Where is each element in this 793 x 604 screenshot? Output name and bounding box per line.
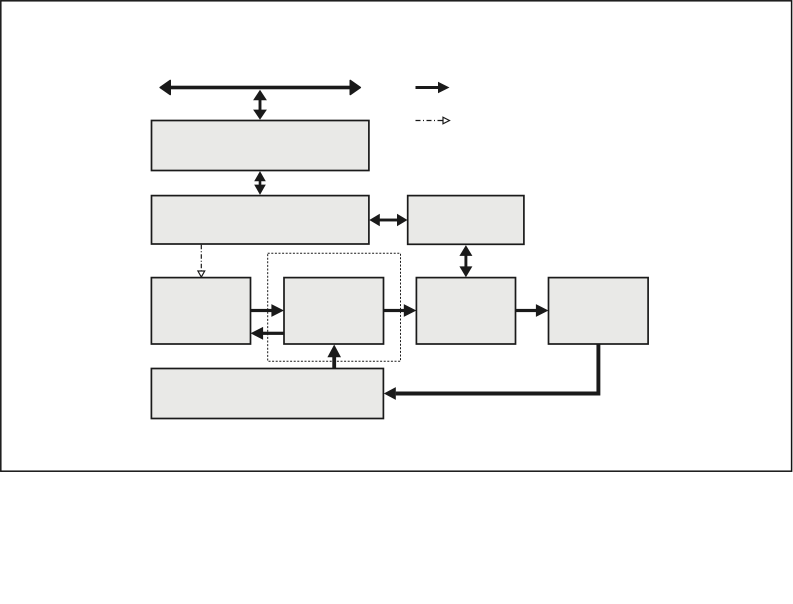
legend dash-dot arrow (416, 117, 450, 124)
arrow box9 up to box6 (327, 345, 341, 370)
vertical double arrow bus-box1 (253, 90, 267, 120)
box 1 (152, 121, 369, 171)
arrow box5 to box6 (251, 304, 285, 317)
box 9 (151, 369, 383, 419)
box 5 (151, 278, 250, 344)
bus double arrow (160, 81, 360, 95)
arrow box7 to box8 (516, 304, 549, 317)
box 8 (549, 278, 649, 344)
box 3 (408, 196, 524, 245)
box 7 (416, 278, 515, 344)
arrow box6 to box7 (384, 304, 417, 317)
box 2 (152, 196, 369, 244)
arrow box6 to box5 (251, 327, 285, 340)
box 6 (284, 278, 384, 344)
legend solid arrow (416, 82, 450, 93)
dotted rectangle (268, 253, 401, 361)
outer frame (1, 1, 792, 471)
horizontal double arrow box2-box3 (369, 214, 407, 226)
dash-dot arrow box2 to box5 (198, 245, 205, 277)
vertical double arrow box3-box7 (459, 245, 472, 277)
vertical double arrow box1-box2 (254, 171, 266, 195)
elbow arrow box8 to box9 (384, 344, 599, 400)
